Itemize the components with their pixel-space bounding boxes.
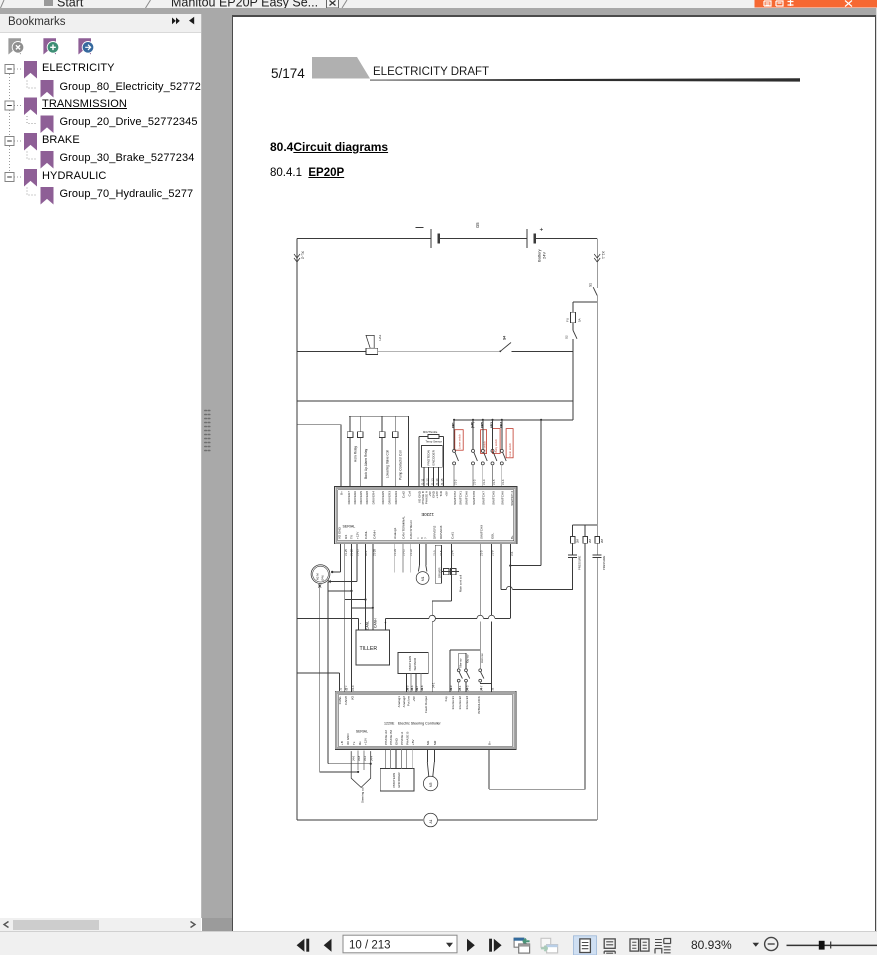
panel hscrollbar arrows — [4, 922, 9, 928]
header rule — [370, 78, 800, 81]
capacitor C2 — [593, 554, 602, 556]
motor M3 — [426, 750, 428, 762]
node A1 circle — [424, 813, 438, 827]
status: next view (disabled) — [541, 938, 551, 947]
page right border — [875, 15, 876, 931]
splitter gutter — [202, 8, 232, 931]
wire tiller plus long — [386, 617, 430, 619]
switch S4 — [499, 350, 501, 352]
wire CAN branches — [345, 599, 366, 601]
bookmark icon Group_30_Brake_5277234 — [41, 151, 54, 169]
panel horizontal scrollbar — [0, 918, 201, 931]
page left border — [232, 15, 233, 931]
wire cap to pin — [512, 588, 573, 590]
controller U4 1220E — [335, 691, 516, 749]
bookmark toolbar icon: delete — [8, 38, 21, 54]
switch SW3 label — [481, 430, 487, 454]
scrollbar corner — [202, 918, 232, 931]
switch S6 — [465, 653, 467, 669]
splitter grip dots — [205, 411, 210, 451]
wire B- tap — [297, 672, 339, 674]
bookmark toolbar icon: next — [78, 38, 91, 54]
motor A2 circle — [311, 565, 330, 584]
wire mid horizontal right — [512, 350, 574, 352]
bookmark toolbar icon: add — [43, 38, 56, 54]
document page white — [233, 17, 875, 931]
bookmark icon Group_80_Electricity_5277234 — [41, 80, 54, 98]
fuse FU — [571, 312, 576, 323]
switch tiller S5 — [458, 653, 460, 669]
status: zoom out — [765, 937, 778, 950]
wire S2 down — [572, 339, 574, 420]
status: prev page button — [324, 939, 332, 952]
bookmark icon HYDRAULIC — [24, 169, 37, 187]
coil pump contactor — [394, 416, 396, 431]
right sliver — [876, 8, 877, 931]
bookmark expander BRAKE — [5, 137, 14, 146]
status: zoom dropdown — [753, 943, 760, 947]
bookmark icon TRANSMISSION — [24, 98, 37, 116]
wire B+ return — [488, 750, 490, 790]
bookmark icon Group_70_Hydraulic_5277 — [41, 187, 54, 205]
panel header separator — [0, 32, 202, 33]
gray band under tabs — [0, 8, 877, 16]
wire bank col right — [408, 416, 410, 486]
battery G5 24V — [526, 229, 528, 248]
bookmark icon BRAKE — [24, 133, 37, 151]
switch S2 — [573, 331, 577, 339]
navigation panel background — [0, 14, 202, 918]
status: single page layout (active) — [574, 936, 597, 955]
panel header collapse icons — [172, 18, 180, 25]
wire relay bank bus — [349, 415, 409, 417]
driver module — [435, 545, 441, 583]
resistor R1 — [572, 525, 574, 537]
tab close button — [327, 0, 339, 8]
wire top supply — [297, 238, 431, 240]
wires controller to A2 — [339, 544, 341, 572]
wire B+ tap to controller — [297, 424, 341, 426]
encoder U5 PROTEON — [380, 768, 414, 791]
connector stubs — [393, 544, 395, 573]
panel right border — [201, 14, 202, 918]
switch S7 — [479, 669, 482, 672]
panel header title — [8, 16, 66, 28]
orange buy button — [755, 0, 877, 8]
page header: page number — [271, 66, 305, 81]
wire CANH to tiller — [372, 544, 374, 630]
encoder pins — [423, 467, 425, 486]
panel tree text — [0, 0, 201, 918]
section heading — [270, 140, 388, 154]
wire left rail XL-2 — [296, 239, 298, 821]
coil lowering valve — [381, 416, 383, 431]
wire switch bus — [454, 419, 573, 421]
switch S1 — [593, 287, 597, 295]
connector XL-2 — [294, 254, 300, 258]
relay K1 horn relay — [349, 416, 351, 431]
resistor R3 — [595, 537, 599, 544]
wire right rail lower — [596, 296, 598, 555]
encoder U3 PROTEON — [398, 652, 428, 673]
resistor R2 — [584, 525, 586, 537]
wire resistor feed bar — [573, 524, 598, 526]
bookmark icon Group_20_Drive_52772345 — [41, 116, 54, 134]
encoder U5 pins — [384, 750, 386, 769]
page top border — [232, 15, 876, 17]
status: facing layout — [630, 939, 639, 951]
wire U shape — [509, 544, 511, 566]
wire branch to fuse — [573, 301, 597, 303]
bookmark expander HYDRAULIC — [5, 173, 14, 182]
bookmark icon ELECTRICITY — [24, 61, 37, 79]
wire CANL to tiller — [365, 544, 367, 630]
header tab shape — [312, 57, 370, 79]
status: continuous layout — [604, 939, 615, 948]
wire tiller minus from rail — [297, 617, 358, 619]
tiller unit — [356, 630, 390, 665]
status: next page button — [467, 939, 475, 952]
status bar — [0, 931, 877, 955]
capacitor C1 — [572, 543, 574, 555]
wire encoder feed staircase — [451, 544, 453, 601]
wire long horizontal — [297, 400, 573, 402]
wire fuse to S2 — [572, 323, 574, 331]
bookmark expander TRANSMISSION — [5, 101, 14, 110]
switch SW4 label — [493, 429, 501, 454]
tab bar — [0, 0, 877, 8]
wire right rail X1-1 — [596, 239, 598, 289]
status: zoom slider — [787, 944, 877, 946]
bookmark expander ELECTRICITY — [5, 65, 14, 74]
wire CAN verticals — [344, 544, 346, 693]
wires A2 down — [319, 584, 321, 772]
connector X1-1 — [594, 254, 600, 258]
encoder U2 PROTEON — [422, 446, 443, 468]
status: last page button — [489, 939, 492, 952]
bookmarks tree guide lines — [9, 74, 11, 182]
status: first page button — [297, 939, 305, 952]
contactor coil resistors — [442, 571, 459, 573]
toggle switches to controller — [453, 420, 455, 450]
switch SW5 label — [506, 429, 513, 458]
tab slants — [1, 0, 348, 8]
tab titles (clipped) — [44, 0, 53, 6]
switch bracket — [450, 649, 480, 651]
wire mid horizontal gray — [378, 350, 500, 352]
horn HA — [366, 335, 374, 348]
wire A2 to steering — [320, 771, 359, 773]
wire switch feeds — [479, 544, 481, 615]
controller U1 1230E — [335, 486, 517, 543]
battery cell 1 — [430, 229, 432, 248]
steering column sensor — [351, 751, 371, 787]
status: previous view — [514, 938, 524, 947]
status: continuous facing layout — [655, 940, 662, 946]
motor M1 — [419, 544, 421, 565]
wire bottom rail — [297, 819, 423, 821]
relay K2 backup alarm relay — [359, 416, 361, 431]
wire mid horizontal left — [297, 350, 366, 352]
switch SW2 with label — [455, 430, 463, 451]
wire cap branch down — [509, 566, 511, 618]
status: page number box — [343, 935, 457, 953]
encoder U3 pins — [405, 674, 407, 693]
